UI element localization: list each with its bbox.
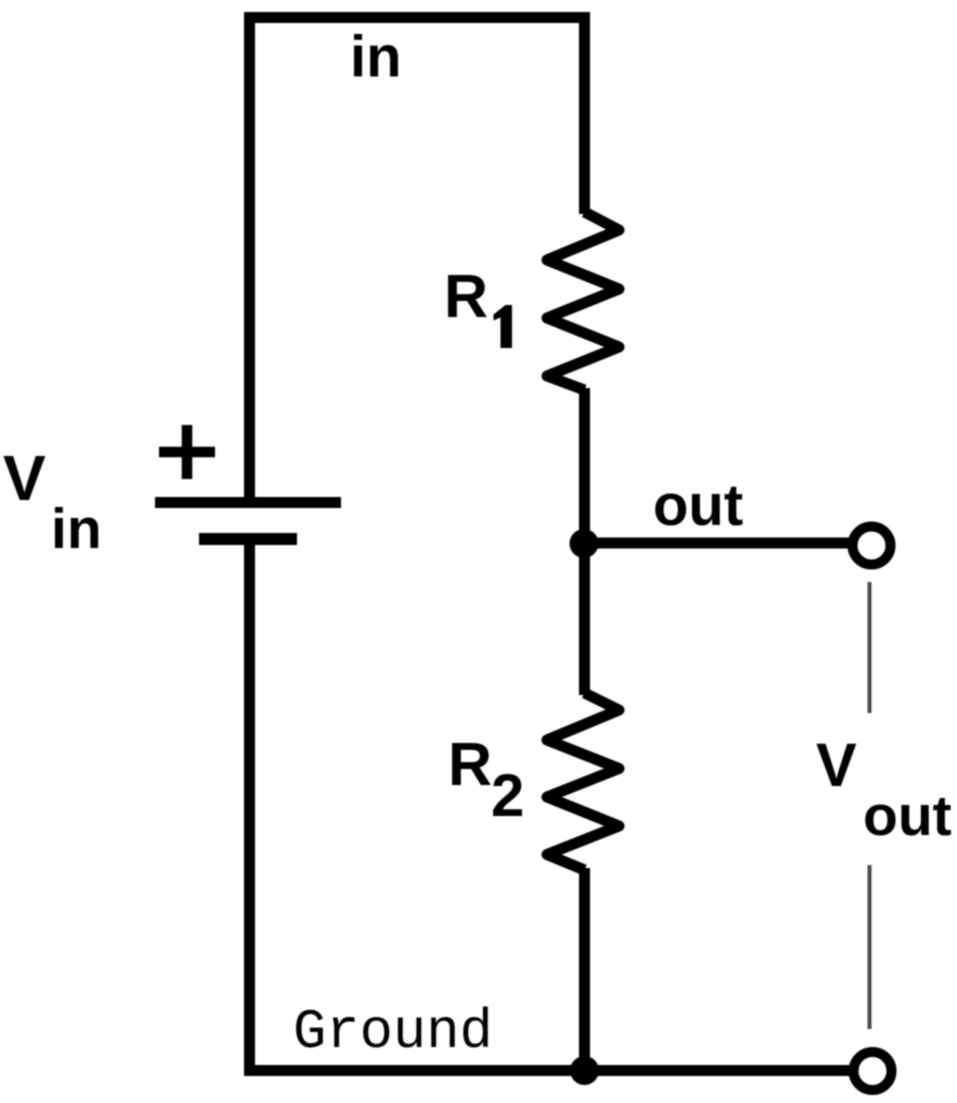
resistor R2 zigzag [547,693,619,870]
wire: node in (battery + up, across top, down to R1) [250,18,585,503]
svg-text:in: in [51,497,102,561]
battery polarity + sign [159,425,215,479]
battery V_in positive plate [155,497,341,508]
svg-text:in: in [350,25,402,90]
ground junction dot [570,1056,599,1085]
wire: battery - down to ground, across bottom [250,540,850,1071]
wire: node out to output terminal [585,538,850,549]
V_out measurement line upper segment [868,582,872,713]
svg-text:V: V [3,442,46,514]
svg-text:out: out [653,473,743,538]
svg-text:R: R [444,262,488,330]
svg-text:V: V [816,731,857,799]
node out junction dot [570,529,599,558]
resistor R1 zigzag [547,212,619,390]
wire: R1 bottom to R2 top through node out [579,388,590,695]
svg-text:out: out [863,784,952,848]
label R1: subscript 1 [494,305,513,348]
wire: R2 bottom to ground node [579,868,590,1071]
svg-text:R: R [448,730,492,798]
V_out measurement line lower segment [868,865,872,1029]
svg-text:2: 2 [491,762,524,829]
battery V_in negative plate [199,533,297,545]
svg-text:Ground: Ground [293,1001,493,1064]
output terminal bottom (open circle) [854,1052,892,1090]
output terminal top (open circle) [853,527,891,565]
